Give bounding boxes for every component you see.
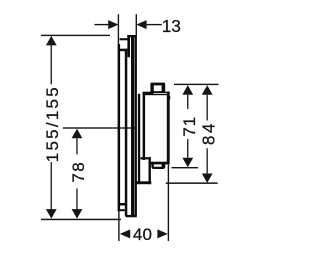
valve carrier top flange bar [127, 37, 130, 57]
dimension 84: upper shaft [207, 95, 208, 121]
dimension 40: left arrow [120, 229, 130, 238]
dimension 84: top arrow [202, 85, 213, 95]
dimension 155/155: top reference line [41, 35, 110, 36]
valve lower step box right edge [149, 157, 151, 184]
dimension 155/155: top arrow [46, 36, 57, 46]
dimension 13: left shaft [95, 24, 110, 25]
handle bottom tab outline [151, 164, 165, 170]
dimension 13: extension line left [118, 14, 119, 44]
dimension 155/155: bottom reference line [41, 219, 121, 221]
dimension 78: bottom arrow [72, 209, 83, 219]
dimension 71/84: top reference line [174, 84, 219, 85]
dimension 71: upper shaft [187, 95, 188, 109]
valve cover top edge [127, 35, 136, 37]
valve lower step box bottom edge [136, 181, 151, 184]
dimension 40: right extension line [168, 164, 169, 241]
valve carrier top rung [120, 49, 127, 52]
valve cover inner line [131, 35, 134, 217]
dimension 71: bottom arrow [182, 158, 193, 168]
svg-text:155/155: 155/155 [43, 85, 62, 162]
handle body back edge [143, 92, 146, 160]
svg-text:78: 78 [69, 161, 88, 183]
dimension 78: top reference line [63, 127, 137, 128]
handle front top nub [169, 96, 170, 99]
svg-text:13: 13 [162, 16, 181, 36]
handle body bottom edge [149, 162, 169, 165]
valve carrier bottom rung [120, 203, 125, 206]
svg-text:71: 71 [180, 116, 199, 137]
dimension 84: bottom reference line [166, 182, 218, 184]
dimension 84: lower shaft [207, 148, 208, 173]
dimension 71: bottom reference line [172, 167, 199, 168]
handle body top edge [143, 92, 170, 96]
svg-text:40: 40 [133, 225, 152, 244]
valve cover bottom edge [126, 215, 137, 217]
handle knob bump interior [154, 85, 162, 91]
dimension 13: right shaft [147, 24, 162, 25]
valve wall line (plate back edge) [118, 44, 121, 211]
valve carrier mid line [125, 49, 128, 217]
svg-text:84: 84 [199, 121, 219, 145]
valve cover front face [134, 35, 137, 217]
valve carrier top edge [120, 38, 130, 40]
dimension 78: top arrow [72, 129, 83, 139]
dimension 13: right arrow [136, 20, 146, 29]
dimension 155/155: lower shaft [51, 162, 52, 209]
valve lower step box top edge [140, 157, 151, 159]
dimension 13: extension line right [136, 14, 137, 35]
dimension 84: bottom arrow [202, 174, 213, 184]
dimension 40: left extension line [118, 211, 119, 241]
handle sleeve line [138, 94, 140, 184]
dimension 78: lower shaft [76, 188, 77, 209]
handle front face [167, 92, 170, 165]
dimension 13: left arrow [108, 20, 118, 29]
handle knob bump outline [150, 83, 165, 93]
dimension 78: upper shaft [76, 138, 77, 154]
dimension 155/155: bottom arrow [46, 209, 57, 219]
dimension 71: lower shaft [187, 139, 188, 158]
dimension 40: right arrow [157, 229, 167, 238]
dimension 155/155: upper shaft [51, 45, 52, 84]
valve carrier bottom edge [118, 209, 125, 211]
dimension 71: top arrow [182, 85, 193, 95]
handle body top edge highlight sliver [154, 92, 168, 95]
